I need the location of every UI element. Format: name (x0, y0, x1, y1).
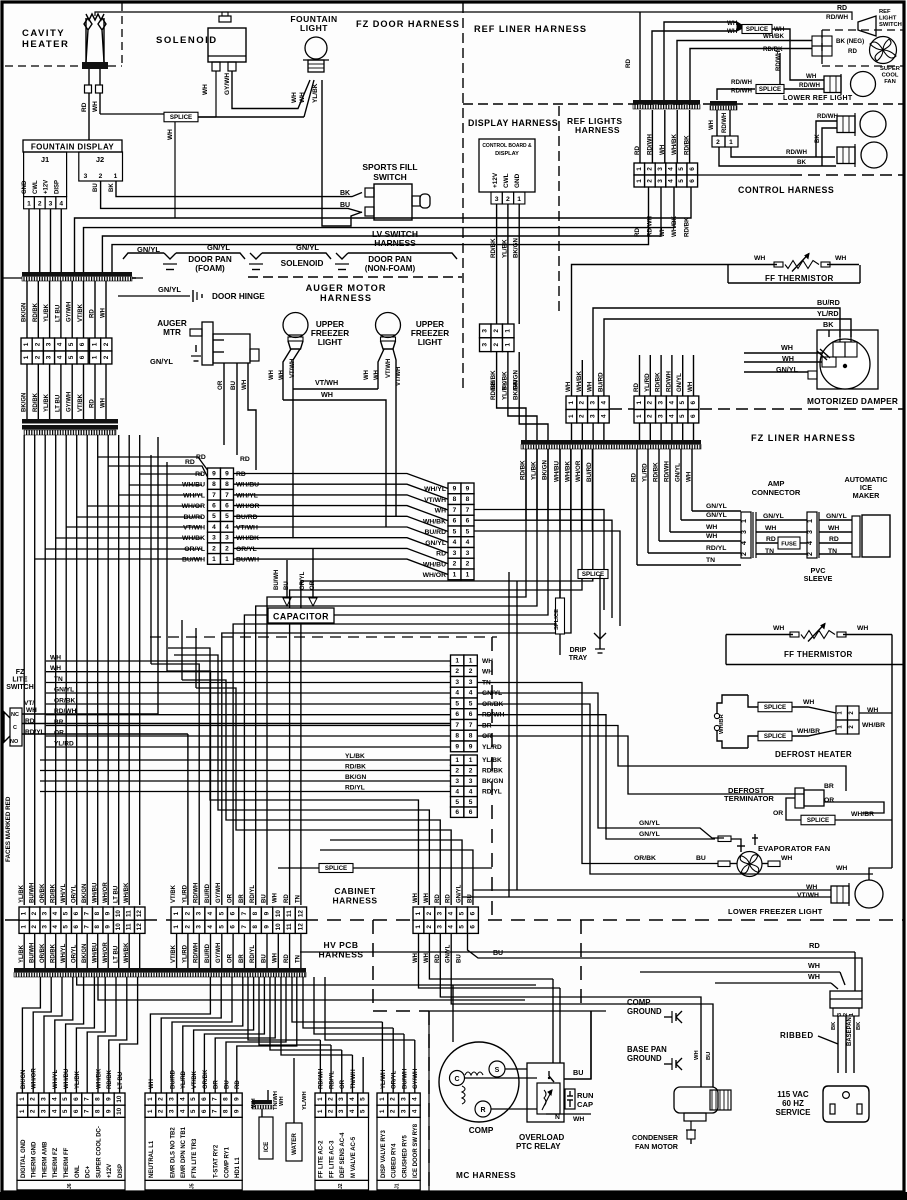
svg-text:9: 9 (105, 1097, 112, 1101)
svg-text:8: 8 (453, 496, 457, 503)
connector 2pin left (90, 338, 101, 351)
svg-text:5: 5 (459, 925, 466, 929)
svg-text:1: 1 (469, 657, 473, 664)
svg-text:5: 5 (453, 528, 457, 535)
svg-text:1: 1 (455, 657, 459, 664)
svg-text:WH: WH (251, 1098, 257, 1108)
svg-text:3: 3 (657, 167, 664, 171)
svg-text:RIBBED: RIBBED (780, 1031, 814, 1040)
svg-text:BU: BU (706, 1052, 712, 1060)
svg-text:FAN: FAN (884, 79, 896, 85)
svg-text:GN/YL: GN/YL (776, 365, 799, 374)
svg-text:OR/YL: OR/YL (236, 546, 257, 553)
svg-text:J5: J5 (190, 1183, 196, 1189)
svg-text:2: 2 (469, 768, 473, 775)
ground solenoid (250, 253, 262, 259)
svg-text:WH: WH (364, 370, 370, 380)
svg-text:3: 3 (42, 925, 49, 929)
svg-text:7: 7 (84, 925, 91, 929)
svg-text:9: 9 (105, 911, 112, 915)
svg-text:WH: WH (279, 370, 285, 380)
svg-text:7: 7 (212, 492, 216, 499)
svg-text:WH: WH (727, 28, 738, 35)
svg-text:LOWER FREEZER LIGHT: LOWER FREEZER LIGHT (728, 907, 823, 916)
svg-text:ONL: ONL (75, 1165, 81, 1178)
svg-text:RD: RD (235, 1080, 241, 1089)
svg-text:WH/OR: WH/OR (236, 503, 259, 510)
wires to relay top (552, 979, 554, 1063)
svg-text:FZ DOOR HARNESS: FZ DOOR HARNESS (356, 19, 460, 29)
svg-text:8: 8 (469, 733, 473, 740)
svg-text:WH: WH (269, 370, 275, 380)
svg-text:RD/BK: RD/BK (107, 1069, 113, 1089)
svg-text:BU: BU (696, 855, 706, 862)
svg-text:SPLICE: SPLICE (582, 571, 604, 578)
svg-text:BK: BK (340, 190, 350, 197)
svg-text:WH: WH (321, 390, 333, 399)
svg-text:4: 4 (469, 788, 473, 795)
svg-text:RD: RD (837, 5, 847, 12)
connector 2-1 (712, 136, 725, 147)
svg-text:FF THERMISTOR: FF THERMISTOR (765, 274, 834, 283)
svg-text:BU/WH: BU/WH (274, 570, 280, 590)
wires from control board (496, 204, 498, 324)
svg-text:6: 6 (455, 809, 459, 816)
basepan connector (830, 991, 862, 1008)
svg-text:CONNECTOR: CONNECTOR (752, 488, 801, 497)
svg-text:VT/BK: VT/BK (78, 303, 84, 322)
svg-text:3: 3 (437, 925, 444, 929)
svg-text:BU: BU (261, 894, 267, 903)
svg-text:6: 6 (469, 809, 473, 816)
svg-text:1: 1 (517, 196, 521, 203)
svg-text:BU: BU (284, 581, 290, 590)
svg-text:3: 3 (590, 414, 597, 418)
svg-text:RD/WH: RD/WH (799, 82, 820, 89)
svg-text:BU: BU (224, 1080, 230, 1089)
svg-text:OR/BK: OR/BK (54, 698, 75, 705)
section boundary FZ LINER top (610, 408, 903, 410)
defrost terminator splice (801, 815, 835, 825)
svg-text:WH: WH (279, 1096, 285, 1106)
svg-text:DOOR PAN: DOOR PAN (368, 255, 412, 264)
svg-text:RD: RD (625, 59, 632, 68)
svg-text:BK: BK (797, 159, 806, 166)
svg-text:GY/WH: GY/WH (67, 302, 73, 322)
svg-text:RUN: RUN (577, 1091, 593, 1100)
svg-text:10: 10 (116, 1107, 123, 1115)
control board pins (491, 192, 502, 204)
wire RD top run (95, 12, 852, 20)
svg-text:3: 3 (469, 778, 473, 785)
svg-text:11: 11 (286, 923, 293, 930)
svg-text:7: 7 (241, 925, 248, 929)
svg-text:6: 6 (690, 401, 697, 405)
overload ptc relay inner (537, 1083, 560, 1114)
svg-text:YL/RD: YL/RD (482, 744, 502, 751)
svg-text:3: 3 (466, 550, 470, 557)
svg-text:2: 2 (716, 139, 720, 146)
defrost terminator body (795, 788, 804, 808)
svg-text:3: 3 (807, 530, 814, 534)
svg-text:WH: WH (202, 84, 209, 95)
svg-text:3: 3 (42, 911, 49, 915)
splice lower ref light (756, 85, 784, 94)
connector 6pin left (21, 338, 32, 351)
cavity heater element (84, 18, 92, 62)
svg-text:8: 8 (223, 1109, 230, 1113)
ref liner bar 2 (710, 101, 737, 105)
svg-text:BK: BK (823, 320, 834, 329)
svg-text:YL/BK: YL/BK (345, 753, 365, 760)
svg-text:BK: BK (815, 134, 821, 143)
svg-text:WH/BK: WH/BK (564, 461, 571, 482)
svg-text:1: 1 (568, 401, 575, 405)
fuse (778, 537, 800, 549)
svg-text:M VALVE AC-5: M VALVE AC-5 (351, 1136, 357, 1178)
svg-text:WH: WH (50, 665, 61, 672)
splice top-left (164, 112, 198, 122)
fz lite switch body (10, 708, 22, 746)
svg-text:2: 2 (426, 925, 433, 929)
svg-text:NEUTRAL L1: NEUTRAL L1 (149, 1140, 155, 1178)
svg-text:MOTORIZED DAMPER: MOTORIZED DAMPER (807, 396, 898, 406)
svg-text:8: 8 (212, 481, 216, 488)
svg-text:RD/WH: RD/WH (817, 113, 838, 120)
wires display harness long horizontals (75, 186, 692, 272)
svg-text:1: 1 (225, 556, 229, 563)
svg-text:BR: BR (54, 719, 64, 726)
svg-text:VT/BK: VT/BK (78, 393, 84, 412)
svg-text:4: 4 (207, 925, 214, 929)
svg-text:3: 3 (46, 355, 53, 359)
svg-text:5: 5 (63, 925, 70, 929)
fountain display J2 box (79, 152, 123, 181)
svg-text:4: 4 (411, 1097, 418, 1101)
svg-text:WH: WH (482, 658, 493, 665)
wires into J1 (381, 1057, 383, 1093)
svg-text:RD: RD (633, 383, 640, 392)
svg-text:+12V: +12V (492, 172, 499, 188)
svg-text:RD/YL: RD/YL (250, 885, 256, 903)
svg-text:RD/YL: RD/YL (706, 545, 726, 552)
svg-text:3: 3 (196, 911, 203, 915)
svg-text:GN/YL: GN/YL (457, 884, 463, 903)
super cool fan connector (812, 36, 822, 46)
mid horizontals from liner bar (267, 449, 526, 905)
svg-text:SERVICE: SERVICE (776, 1108, 812, 1117)
svg-text:5: 5 (62, 1097, 69, 1101)
svg-text:N: N (555, 1114, 560, 1121)
svg-text:WH/YL: WH/YL (183, 492, 205, 499)
svg-text:7: 7 (453, 507, 457, 514)
svg-text:WH: WH (659, 144, 666, 155)
svg-text:YL/BK: YL/BK (75, 1070, 81, 1089)
svg-text:5: 5 (218, 911, 225, 915)
svg-text:6: 6 (230, 925, 237, 929)
svg-text:RD/WH: RD/WH (194, 883, 200, 903)
svg-text:BU: BU (573, 1068, 583, 1077)
svg-text:BR: BR (214, 1080, 220, 1089)
section boundary CONTROL HARNESS (697, 174, 790, 176)
svg-text:RD: RD (185, 459, 195, 466)
svg-text:BU/RD: BU/RD (236, 514, 258, 521)
svg-text:C: C (454, 1076, 459, 1083)
svg-text:5: 5 (678, 167, 685, 171)
svg-text:2: 2 (99, 173, 103, 180)
svg-text:YL/RD: YL/RD (817, 309, 839, 318)
svg-text:3: 3 (482, 342, 489, 346)
svg-text:DOOR PAN: DOOR PAN (188, 255, 232, 264)
svg-text:1: 1 (27, 201, 31, 208)
svg-text:LIGHT: LIGHT (418, 338, 443, 347)
svg-text:CONTROL HARNESS: CONTROL HARNESS (738, 185, 834, 195)
svg-text:1: 1 (21, 925, 28, 929)
svg-text:6: 6 (73, 1109, 80, 1113)
svg-text:HV PCB: HV PCB (323, 940, 358, 950)
svg-text:2: 2 (579, 414, 586, 418)
svg-text:3: 3 (41, 1097, 48, 1101)
svg-text:FF LITE AC-2: FF LITE AC-2 (319, 1140, 325, 1178)
svg-text:RD: RD (829, 536, 839, 543)
fountain display box (23, 140, 122, 152)
relay switch contact (548, 1071, 550, 1076)
svg-text:CUBED RY4: CUBED RY4 (392, 1143, 398, 1178)
svg-text:1: 1 (147, 1109, 154, 1113)
door hinge bar (22, 419, 118, 424)
section boundary mid page (150, 636, 497, 638)
svg-text:WH: WH (754, 255, 765, 262)
svg-text:GY/WH: GY/WH (224, 73, 231, 95)
svg-text:5: 5 (62, 1109, 69, 1113)
svg-text:2: 2 (31, 911, 38, 915)
svg-text:J1: J1 (395, 1183, 401, 1189)
wire WH/BK to fan (677, 41, 812, 101)
svg-text:LT BU: LT BU (114, 886, 120, 903)
svg-text:8: 8 (94, 925, 101, 929)
svg-text:RD: RD (284, 894, 290, 903)
svg-text:CABINET: CABINET (334, 886, 376, 896)
svg-text:GN/YL: GN/YL (706, 503, 727, 510)
svg-text:YL/RD: YL/RD (181, 1070, 187, 1089)
svg-text:6: 6 (230, 911, 237, 915)
svg-text:OR: OR (824, 797, 834, 804)
control harness bulb 1 (860, 111, 886, 137)
section boundary cabinet vertical (491, 637, 493, 920)
svg-text:FF LITE AC-3: FF LITE AC-3 (329, 1140, 335, 1178)
svg-text:RD: RD (809, 941, 820, 950)
svg-text:WH: WH (706, 533, 717, 540)
auger motor leads (223, 363, 225, 445)
svg-text:WH/BK: WH/BK (576, 371, 583, 392)
svg-text:+12V: +12V (44, 180, 50, 194)
wires bank2 to HV bar (176, 933, 178, 968)
svg-text:1: 1 (23, 355, 30, 359)
svg-text:5: 5 (679, 414, 686, 418)
svg-text:WH/OR: WH/OR (32, 1068, 38, 1089)
second connector rows wires (40, 759, 450, 761)
svg-text:WH: WH (687, 381, 694, 392)
svg-text:2: 2 (30, 1109, 37, 1113)
wires below fz liner bar left (525, 449, 527, 520)
wire GY/WH solenoid (232, 71, 310, 109)
svg-text:SPLICE: SPLICE (807, 817, 829, 824)
svg-text:WH/BR: WH/BR (851, 811, 874, 818)
svg-text:GN/YL: GN/YL (763, 513, 784, 520)
svg-text:REF LINER HARNESS: REF LINER HARNESS (474, 24, 587, 34)
svg-text:RD/WH: RD/WH (665, 371, 672, 392)
svg-text:5: 5 (360, 1097, 367, 1101)
FF thermistor 1 frame (696, 240, 698, 265)
evaporator fan ground (748, 833, 750, 846)
svg-text:3: 3 (41, 1109, 48, 1113)
svg-text:1: 1 (729, 139, 733, 146)
svg-text:12: 12 (136, 910, 143, 918)
wire WH vertical x664 (664, 22, 737, 100)
svg-text:UPPER: UPPER (416, 320, 444, 329)
svg-text:WH: WH (241, 379, 248, 390)
wire RD/YL fz lite (22, 733, 188, 735)
svg-text:J2: J2 (338, 1183, 344, 1189)
door connector bar (22, 272, 132, 276)
svg-text:YL/BK: YL/BK (44, 393, 50, 412)
svg-text:RD/BK: RD/BK (51, 883, 57, 903)
svg-text:TN: TN (295, 895, 301, 903)
svg-text:WH/BU: WH/BU (236, 482, 259, 489)
compressor wires (505, 1068, 527, 1070)
ice connector mini bar (252, 1100, 272, 1104)
svg-text:1: 1 (317, 1097, 324, 1101)
wires bar down from hinge bar (29, 435, 31, 452)
svg-text:3: 3 (455, 778, 459, 785)
svg-text:1: 1 (114, 173, 118, 180)
svg-text:RD/WH: RD/WH (646, 216, 653, 237)
svg-text:3: 3 (225, 535, 229, 542)
svg-text:1: 1 (568, 414, 575, 418)
svg-text:RD/BK: RD/BK (33, 392, 39, 412)
solenoid body (208, 28, 246, 62)
extra hv bar horizontals (77, 977, 536, 985)
svg-text:GN/YL: GN/YL (158, 285, 181, 294)
svg-text:DC+: DC+ (86, 1165, 92, 1178)
splice mid left (319, 864, 353, 873)
svg-text:HARNESS: HARNESS (318, 950, 363, 960)
svg-text:5: 5 (360, 1109, 367, 1113)
svg-text:LT BU: LT BU (55, 305, 61, 322)
svg-text:VT/WH: VT/WH (797, 892, 819, 899)
svg-text:OR: OR (773, 810, 783, 817)
wires 9pin right hooks (474, 510, 604, 611)
svg-text:2: 2 (647, 414, 654, 418)
second connector 6row (451, 755, 464, 765)
svg-text:2: 2 (807, 552, 814, 556)
splice rotated 560 (559, 581, 561, 655)
svg-text:WH: WH (101, 308, 107, 318)
HV PCB bar (14, 968, 306, 972)
svg-text:BK: BK (109, 183, 115, 192)
compressor circle (439, 1042, 519, 1122)
svg-text:WH: WH (50, 655, 61, 662)
wires into J6 (21, 1057, 23, 1093)
svg-text:VT/WH: VT/WH (183, 525, 205, 532)
svg-text:4: 4 (57, 355, 64, 359)
wires fountain display J1 to bar (28, 209, 30, 272)
connector block J6 (17, 1093, 28, 1105)
svg-text:RD/WH: RD/WH (722, 113, 728, 133)
svg-text:BK/GN: BK/GN (21, 1070, 27, 1089)
svg-text:WH: WH (694, 1050, 700, 1060)
svg-text:2: 2 (212, 545, 216, 552)
svg-text:1: 1 (21, 911, 28, 915)
svg-text:3: 3 (401, 1097, 408, 1101)
svg-text:DISP VALVE RY3: DISP VALVE RY3 (381, 1130, 387, 1178)
svg-text:WH/BK: WH/BK (96, 1068, 102, 1089)
svg-text:2: 2 (493, 329, 500, 333)
svg-text:1: 1 (147, 1097, 154, 1101)
svg-text:COMP RY1: COMP RY1 (224, 1146, 230, 1178)
svg-text:2: 2 (38, 201, 42, 208)
defrost heater splice 1 (748, 695, 758, 707)
connector block J5 (145, 1093, 156, 1105)
svg-text:OR/BK: OR/BK (203, 1069, 209, 1089)
svg-text:7: 7 (469, 722, 473, 729)
svg-text:1: 1 (453, 571, 457, 578)
svg-text:2: 2 (390, 1109, 397, 1113)
svg-text:9: 9 (105, 925, 112, 929)
svg-text:4: 4 (448, 925, 455, 929)
svg-text:3: 3 (338, 1109, 345, 1113)
svg-text:CAP: CAP (577, 1100, 593, 1109)
svg-text:GN/YL: GN/YL (207, 243, 230, 252)
svg-text:1: 1 (19, 1109, 26, 1113)
svg-text:WH/OR: WH/OR (575, 460, 582, 482)
svg-text:BU: BU (340, 202, 350, 209)
svg-text:FTN LITE TR3: FTN LITE TR3 (192, 1138, 198, 1178)
svg-text:WH/BR: WH/BR (862, 722, 885, 729)
svg-text:BU/WH: BU/WH (30, 883, 36, 903)
svg-text:2: 2 (741, 552, 748, 556)
svg-text:YL/WH: YL/WH (302, 1091, 308, 1110)
svg-text:8: 8 (225, 481, 229, 488)
svg-text:SPLICE: SPLICE (759, 86, 781, 93)
connector block J1 (377, 1093, 388, 1105)
ground door pan non-foam (336, 253, 348, 259)
svg-text:GN/YL: GN/YL (296, 243, 319, 252)
svg-text:FREEZER: FREEZER (311, 329, 349, 338)
svg-text:WH: WH (149, 1079, 155, 1089)
svg-text:GND: GND (22, 180, 28, 194)
svg-text:4: 4 (51, 1097, 58, 1101)
svg-text:GN/YL: GN/YL (639, 831, 660, 838)
right 9pin connector mid (448, 483, 461, 494)
svg-text:THERM GND: THERM GND (32, 1141, 38, 1178)
wire WH to lower ref light (772, 29, 824, 80)
ref lights connector 6pin (634, 163, 645, 175)
svg-text:5: 5 (190, 1097, 197, 1101)
svg-text:YL/BK: YL/BK (44, 303, 50, 322)
svg-text:RD/WH: RD/WH (54, 708, 77, 715)
svg-text:YL/BK: YL/BK (312, 83, 319, 103)
svg-text:6: 6 (689, 167, 696, 171)
svg-text:9: 9 (466, 485, 470, 492)
svg-text:8: 8 (95, 1109, 102, 1113)
svg-text:LT BU: LT BU (55, 395, 61, 412)
svg-text:8: 8 (252, 925, 259, 929)
wire RD from cavity heater (88, 69, 90, 85)
wires RD WH below bar1 (94, 281, 96, 338)
svg-text:3: 3 (482, 329, 489, 333)
svg-text:BK: BK (856, 1021, 862, 1030)
